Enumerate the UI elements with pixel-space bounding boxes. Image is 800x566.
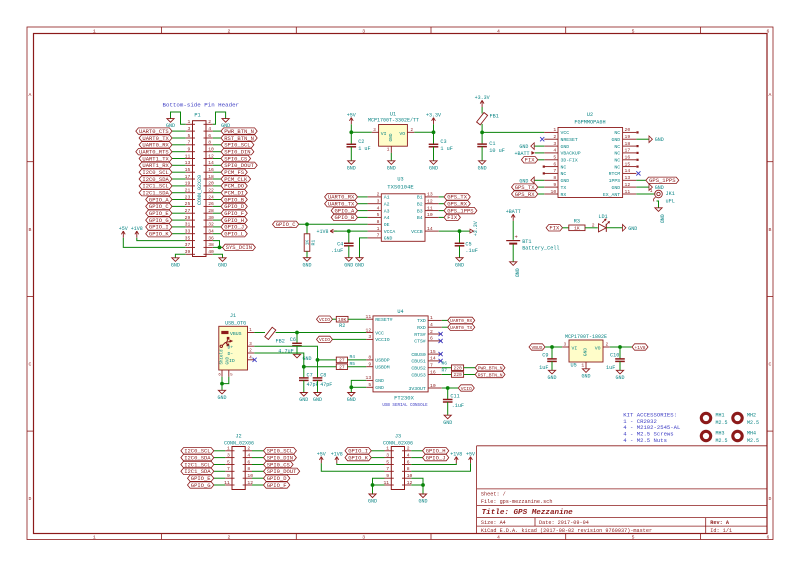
svg-text:4: 4 bbox=[208, 126, 211, 132]
svg-text:RTCM: RTCM bbox=[609, 171, 621, 177]
wire pin22 bbox=[213, 192, 221, 194]
global label SPI0_CS bbox=[221, 155, 251, 161]
svg-text:1 uF: 1 uF bbox=[440, 146, 452, 152]
wire C7 to GND bbox=[303, 380, 305, 392]
svg-text:VCCIO: VCCIO bbox=[375, 337, 390, 343]
global label PCM_CLK bbox=[221, 176, 251, 182]
mounting hole MH3 bbox=[701, 431, 727, 445]
svg-text:FGPMMOPA6H: FGPMMOPA6H bbox=[574, 119, 605, 125]
wire U2 pin12 GND bbox=[636, 186, 649, 188]
svg-text:+1V8: +1V8 bbox=[131, 226, 143, 232]
ground C5 bbox=[456, 258, 463, 262]
svg-text:C: C bbox=[29, 362, 32, 368]
power +3.3V at U3 VCCB bbox=[470, 229, 474, 233]
power +1V8 left of J3 bbox=[336, 457, 338, 464]
svg-text:CBUS1: CBUS1 bbox=[411, 359, 426, 365]
wire C6 to GND bbox=[296, 346, 298, 355]
capacitor C1 bbox=[477, 143, 487, 145]
svg-text:USB_OTG: USB_OTG bbox=[225, 320, 246, 326]
connector JK1 uFL bbox=[655, 190, 663, 198]
svg-text:5: 5 bbox=[368, 382, 371, 388]
svg-text:3: 3 bbox=[553, 141, 556, 147]
svg-text:TXD: TXD bbox=[417, 318, 426, 324]
battery BT1 Battery_Cell bbox=[506, 240, 520, 242]
global label FIX (LED) bbox=[546, 225, 562, 231]
ground P1 top-right bbox=[222, 119, 229, 123]
global label GPIO_H bbox=[423, 448, 449, 454]
title block bbox=[477, 446, 767, 534]
svg-text:GND: GND bbox=[299, 397, 308, 403]
junction SYS_DCIN bbox=[218, 246, 222, 250]
svg-text:MCP1700T-1802E: MCP1700T-1802E bbox=[565, 334, 607, 340]
global label GPS_1PPS bbox=[646, 177, 679, 183]
svg-text:JK1: JK1 bbox=[666, 191, 675, 197]
svg-text:U1: U1 bbox=[390, 111, 396, 117]
wire U2 pin9 bbox=[538, 186, 545, 188]
wire R5 to USBDM bbox=[348, 366, 367, 368]
svg-text:+3.3V: +3.3V bbox=[473, 221, 479, 236]
svg-text:2: 2 bbox=[247, 446, 250, 452]
wire C1 to GND bbox=[481, 147, 483, 161]
global label UART0_TX bbox=[139, 135, 172, 141]
svg-text:FB1: FB1 bbox=[490, 114, 499, 120]
svg-text:14: 14 bbox=[427, 226, 433, 232]
capacitor C9 bbox=[547, 358, 557, 360]
wire pin13 bbox=[172, 164, 186, 166]
power +BATT at BT1 bbox=[512, 214, 514, 221]
wire pin15 bbox=[172, 171, 186, 173]
ground C6 bbox=[293, 354, 300, 358]
wire U3 B1 bbox=[439, 196, 444, 198]
wire CBUS3 to R7 bbox=[442, 374, 452, 376]
ground U4 bbox=[348, 393, 355, 397]
svg-text:UART0_TX: UART0_TX bbox=[450, 325, 472, 331]
svg-text:2: 2 bbox=[553, 134, 556, 140]
capacitor C10 bbox=[615, 358, 625, 360]
svg-text:GND: GND bbox=[226, 356, 230, 364]
wire pin25 bbox=[172, 205, 186, 207]
svg-text:GND: GND bbox=[659, 214, 665, 223]
wire J2 pin7 bbox=[214, 470, 225, 472]
svg-text:4 - M2.5 Nuts: 4 - M2.5 Nuts bbox=[623, 437, 667, 444]
global label GPIO_K bbox=[345, 454, 371, 460]
svg-text:Shield: Shield bbox=[220, 349, 225, 365]
wire to C10 bbox=[619, 347, 621, 359]
svg-text:8: 8 bbox=[247, 466, 250, 472]
svg-text:9: 9 bbox=[386, 473, 389, 479]
wire +1V8 to J3 pin5 bbox=[337, 463, 385, 464]
svg-text:12: 12 bbox=[366, 327, 372, 333]
no-connect U2 pin14 bbox=[636, 171, 640, 175]
junction C6 bbox=[295, 331, 299, 335]
wire U2 pin19 GND bbox=[636, 138, 649, 140]
svg-text:B2: B2 bbox=[417, 202, 423, 208]
svg-text:4: 4 bbox=[247, 452, 250, 458]
svg-text:6: 6 bbox=[767, 29, 770, 35]
svg-text:+1V8: +1V8 bbox=[634, 345, 645, 351]
resistor R2 10K bbox=[336, 316, 348, 322]
svg-text:D+: D+ bbox=[228, 344, 234, 350]
wire pin11 bbox=[172, 158, 186, 160]
power GND at U2 pin19 bbox=[649, 136, 652, 143]
svg-text:GND: GND bbox=[561, 178, 570, 184]
wire R2 to RESET# bbox=[348, 318, 366, 320]
global label GPIO_C bbox=[146, 203, 172, 209]
svg-text:GPIO_F: GPIO_F bbox=[267, 482, 287, 489]
wire pin33 bbox=[172, 233, 186, 235]
svg-text:7: 7 bbox=[430, 363, 433, 369]
mounting hole MH1 bbox=[701, 413, 727, 427]
svg-text:Title: GPS Mezzanine: Title: GPS Mezzanine bbox=[482, 509, 574, 517]
wire +3.3V to FB1 bbox=[481, 107, 483, 114]
wire VBUS to U5 VI bbox=[545, 346, 562, 348]
svg-text:GPIO_L: GPIO_L bbox=[224, 231, 244, 238]
global label GPS_1PPS bbox=[444, 207, 477, 213]
wire pin7 bbox=[172, 144, 186, 146]
svg-text:11: 11 bbox=[625, 189, 631, 195]
svg-text:GPS_1PPS: GPS_1PPS bbox=[649, 177, 676, 184]
svg-text:15: 15 bbox=[430, 349, 436, 355]
svg-text:USBDP: USBDP bbox=[375, 358, 390, 364]
svg-text:A3: A3 bbox=[384, 208, 390, 214]
ground C4 bbox=[345, 258, 352, 262]
global label PCM_DO bbox=[221, 183, 247, 189]
global label SPI0_SCL bbox=[221, 142, 254, 148]
global label SPI0_DIN bbox=[264, 454, 297, 460]
svg-text:GND: GND bbox=[655, 137, 664, 143]
svg-text:CONN_02X06: CONN_02X06 bbox=[383, 441, 413, 447]
svg-text:NC: NC bbox=[614, 130, 620, 136]
svg-text:2: 2 bbox=[208, 119, 211, 125]
svg-text:GND: GND bbox=[347, 165, 356, 171]
wire pin30 bbox=[213, 219, 221, 221]
wire J2 pin5 bbox=[214, 464, 225, 466]
global label UART0_RX bbox=[448, 317, 475, 323]
svg-text:MH1: MH1 bbox=[716, 413, 725, 419]
svg-text:5: 5 bbox=[632, 535, 635, 541]
global label GPIO_B bbox=[331, 214, 357, 220]
svg-text:FB2: FB2 bbox=[276, 338, 285, 344]
svg-text:6: 6 bbox=[553, 161, 556, 167]
global label SPI0_CS bbox=[264, 461, 294, 467]
wire 3V3OUT bbox=[442, 387, 459, 389]
wire junction to C6 bbox=[296, 333, 298, 344]
svg-text:M2.5: M2.5 bbox=[716, 420, 728, 426]
no-connect J1 ID bbox=[253, 358, 257, 362]
svg-text:GPIO_K: GPIO_K bbox=[149, 231, 170, 238]
wire pin6 bbox=[213, 137, 221, 139]
svg-text:4: 4 bbox=[430, 322, 433, 328]
wire C11 to GND bbox=[447, 402, 449, 415]
svg-text:R2: R2 bbox=[339, 323, 345, 329]
wire J3 pin2 bbox=[411, 450, 422, 452]
U1 pin 3 bbox=[372, 131, 379, 133]
svg-text:1uF: 1uF bbox=[539, 365, 548, 371]
wire C2 to GND bbox=[350, 147, 352, 161]
svg-text:.1uF: .1uF bbox=[452, 403, 464, 409]
svg-text:D: D bbox=[769, 496, 772, 502]
no-connect CBUS1 bbox=[439, 359, 443, 363]
wire U3 VCCB to +3.3V bbox=[439, 230, 470, 232]
svg-text:1uF: 1uF bbox=[606, 365, 615, 371]
svg-text:B: B bbox=[29, 227, 32, 233]
svg-text:RX: RX bbox=[561, 192, 567, 198]
svg-text:1: 1 bbox=[387, 147, 390, 153]
wire pin28 bbox=[213, 212, 221, 214]
wire to C3 bbox=[433, 132, 435, 144]
U1 pin 2 bbox=[407, 131, 414, 133]
wire +5V to U1 VI bbox=[351, 124, 372, 132]
svg-text:6: 6 bbox=[430, 336, 433, 342]
wire J2 pin4 bbox=[252, 457, 264, 459]
global label SPI0_DIN bbox=[221, 149, 254, 155]
svg-text:KiCad E.D.A. kicad (2017-08-0: KiCad E.D.A. kicad (2017-08-02 revision … bbox=[481, 528, 652, 534]
power +BATT at U2 pin4 bbox=[535, 152, 544, 154]
svg-text:+5V: +5V bbox=[466, 452, 475, 458]
svg-text:47pF: 47pF bbox=[307, 382, 319, 388]
svg-text:A1: A1 bbox=[384, 195, 390, 201]
resistor R4 27 bbox=[336, 357, 347, 363]
wire C9 to GND bbox=[551, 361, 553, 370]
svg-text:220: 220 bbox=[453, 372, 462, 378]
wire U2 pin13 bbox=[636, 179, 646, 181]
svg-text:GND: GND bbox=[418, 499, 427, 505]
wire P1 pin1 to GND bbox=[171, 112, 186, 124]
wire pin9 bbox=[172, 151, 186, 153]
global label RST_BTN_N bbox=[221, 135, 257, 141]
wire pin29 bbox=[172, 219, 186, 221]
GPS module U2 FGPMMOPA6H bbox=[558, 128, 623, 198]
svg-text:GND: GND bbox=[221, 123, 230, 129]
wire pin19 bbox=[172, 185, 186, 187]
power GND at U2 pin3 bbox=[531, 143, 534, 150]
ground C9 bbox=[548, 370, 555, 374]
svg-text:C8: C8 bbox=[320, 372, 326, 378]
svg-text:27: 27 bbox=[339, 364, 345, 370]
wire J2 pin12 bbox=[252, 484, 264, 486]
svg-text:9: 9 bbox=[187, 147, 190, 153]
svg-text:1: 1 bbox=[93, 535, 96, 541]
svg-text:+5V: +5V bbox=[317, 452, 326, 458]
global label GPIO_D bbox=[221, 203, 247, 209]
svg-text:FT230X: FT230X bbox=[394, 395, 415, 402]
junction C8 bbox=[316, 358, 320, 362]
svg-text:A: A bbox=[769, 92, 772, 98]
svg-text:TXS0104E: TXS0104E bbox=[387, 183, 414, 190]
svg-text:8: 8 bbox=[553, 175, 556, 181]
global label GPIO_F bbox=[264, 482, 290, 488]
svg-text:CBUS0: CBUS0 bbox=[411, 352, 426, 358]
svg-text:GND: GND bbox=[561, 144, 570, 150]
ground C11 bbox=[444, 415, 451, 419]
svg-text:C2: C2 bbox=[358, 139, 364, 145]
svg-text:5: 5 bbox=[632, 29, 635, 35]
svg-text:+1V8: +1V8 bbox=[316, 229, 328, 235]
global label GPIO_I bbox=[345, 448, 371, 454]
global label SPI0_SCL bbox=[264, 448, 297, 454]
svg-text:NRESET: NRESET bbox=[561, 137, 578, 143]
resistor R1 1K bbox=[304, 234, 310, 252]
wire C5 to GND bbox=[459, 246, 461, 258]
svg-text:1: 1 bbox=[93, 29, 96, 35]
wire pin38 bbox=[213, 246, 223, 248]
LED LD1 bbox=[599, 224, 607, 232]
svg-text:7: 7 bbox=[386, 466, 389, 472]
svg-text:1: 1 bbox=[430, 315, 433, 321]
chip U4 FT230X bbox=[373, 316, 428, 392]
global label GPS_TX bbox=[444, 194, 470, 200]
junction C3 bbox=[432, 130, 436, 134]
capacitor C8 bbox=[313, 377, 323, 379]
global label GPS_TX bbox=[512, 184, 538, 190]
global label GPIO_I bbox=[146, 224, 172, 230]
svg-text:GND: GND bbox=[217, 395, 226, 401]
svg-text:M2.5: M2.5 bbox=[747, 420, 759, 426]
global label UART0_RX bbox=[325, 194, 358, 200]
junction C5 bbox=[458, 229, 462, 233]
svg-text:GND: GND bbox=[344, 262, 353, 268]
svg-text:GND: GND bbox=[218, 262, 227, 268]
svg-text:NC: NC bbox=[614, 164, 620, 170]
svg-text:VCIO: VCIO bbox=[319, 337, 330, 343]
svg-text:10 uF: 10 uF bbox=[489, 148, 505, 154]
wire J2 pin11 bbox=[214, 484, 225, 486]
wire pin12 bbox=[213, 158, 221, 160]
global label VCIO (R2) bbox=[317, 316, 333, 322]
svg-text:M2.5: M2.5 bbox=[716, 438, 728, 444]
wire pin24 bbox=[213, 199, 221, 201]
svg-text:J1: J1 bbox=[230, 313, 236, 319]
svg-text:RESET#: RESET# bbox=[375, 317, 392, 323]
global label GPIO_L bbox=[221, 231, 247, 237]
global label UART0_RTS bbox=[136, 149, 172, 155]
wire R4 to USBDP bbox=[348, 359, 367, 361]
wire pin17 bbox=[172, 178, 186, 180]
wire pin26 bbox=[213, 205, 221, 207]
wire pin21 bbox=[172, 192, 186, 194]
U5 pin 1 GND bbox=[585, 362, 587, 369]
svg-text:VCC: VCC bbox=[375, 330, 384, 336]
svg-text:18: 18 bbox=[625, 141, 631, 147]
svg-text:P1: P1 bbox=[194, 113, 200, 119]
capacitor C6 bbox=[292, 342, 302, 344]
junction C1 bbox=[480, 131, 484, 135]
svg-text:GND: GND bbox=[384, 236, 393, 242]
wire GPIO_C to OE bbox=[299, 223, 368, 225]
no-connect CBUS0 bbox=[439, 352, 443, 356]
regulator U1 MCP1700T-3302E/TT bbox=[379, 125, 408, 147]
wire +5V to pin37 bbox=[123, 238, 185, 248]
wire U3 A4 bbox=[358, 216, 368, 218]
power GND at U2 pin12 bbox=[649, 184, 652, 191]
global label VBUS bbox=[529, 344, 545, 350]
wire to C9 bbox=[551, 347, 553, 359]
power +5V left of J3 bbox=[320, 457, 322, 464]
svg-text:uFL: uFL bbox=[666, 199, 675, 205]
wire U3 A1 bbox=[358, 196, 368, 198]
svg-text:VBUS: VBUS bbox=[531, 345, 542, 351]
wire pin16 bbox=[213, 171, 221, 173]
global label SPI0_DOUT bbox=[221, 162, 257, 168]
U5 pin 3 bbox=[562, 346, 569, 348]
svg-text:C5: C5 bbox=[465, 241, 471, 247]
svg-text:9: 9 bbox=[553, 182, 556, 188]
svg-text:NC: NC bbox=[614, 151, 620, 157]
wire C8 to GND bbox=[317, 380, 319, 392]
wire to C1 bbox=[481, 132, 483, 144]
ground U1 bbox=[388, 161, 395, 165]
svg-text:VCCB: VCCB bbox=[411, 229, 423, 235]
wire +BATT to BT1 bbox=[512, 221, 514, 240]
wire J3 pin10/12 to GND bbox=[411, 478, 423, 485]
wire FB1 to U2 VCC bbox=[482, 124, 544, 132]
junction C2 bbox=[349, 130, 353, 134]
svg-text:+3.3V: +3.3V bbox=[426, 112, 441, 118]
svg-text:6: 6 bbox=[208, 133, 211, 139]
svg-text:FIX: FIX bbox=[525, 157, 536, 164]
svg-text:1: 1 bbox=[650, 188, 653, 194]
wire pin23 bbox=[172, 199, 186, 201]
svg-text:GPS_RX: GPS_RX bbox=[515, 191, 536, 198]
ground C7 bbox=[300, 393, 307, 397]
power +1V8 right of J3 bbox=[455, 457, 457, 464]
svg-text:RXD: RXD bbox=[417, 325, 426, 331]
wire C4 to GND bbox=[348, 246, 350, 258]
svg-text:Rev: A: Rev: A bbox=[710, 520, 730, 526]
P1 pins bbox=[186, 124, 213, 254]
global label UART1_RX bbox=[139, 162, 172, 168]
wire U2 pin5 FIX bbox=[538, 159, 545, 161]
svg-text:1PPS: 1PPS bbox=[609, 178, 621, 184]
svg-text:+BATT: +BATT bbox=[506, 209, 521, 215]
wire pin31 bbox=[172, 226, 186, 228]
svg-text:1K: 1K bbox=[305, 240, 311, 246]
global label VCIO (3V3OUT) bbox=[458, 385, 474, 391]
junction C11 bbox=[446, 386, 450, 390]
U5 pin 2 bbox=[603, 346, 610, 348]
svg-text:GND: GND bbox=[443, 420, 452, 426]
svg-text:GND: GND bbox=[375, 385, 384, 391]
svg-text:Id: 1/1: Id: 1/1 bbox=[710, 528, 732, 534]
ground C1 bbox=[479, 161, 486, 165]
svg-text:5: 5 bbox=[227, 459, 230, 465]
svg-text:C3: C3 bbox=[440, 139, 446, 145]
power GND at LD1 bbox=[623, 225, 626, 232]
wire pin39 to GND bbox=[175, 254, 185, 257]
svg-text:GND: GND bbox=[478, 165, 487, 171]
svg-text:GND: GND bbox=[547, 375, 556, 381]
svg-text:15: 15 bbox=[625, 161, 631, 167]
wire VBUS to FB2 bbox=[254, 332, 265, 334]
ground U3 bbox=[356, 258, 363, 262]
svg-text:RTS#: RTS# bbox=[414, 332, 426, 338]
wire P1 pin2 to GND bbox=[213, 112, 226, 124]
svg-text:1K: 1K bbox=[574, 226, 580, 232]
resistor R7 220 bbox=[452, 372, 464, 378]
svg-text:.1uF: .1uF bbox=[465, 248, 477, 254]
svg-text:GND: GND bbox=[583, 348, 589, 357]
J1 bottom pins bbox=[221, 370, 223, 377]
svg-text:220: 220 bbox=[453, 365, 462, 371]
global label GPIO_B bbox=[221, 196, 247, 202]
svg-text:16: 16 bbox=[430, 369, 436, 375]
svg-text:C4: C4 bbox=[337, 241, 343, 247]
global label GPIO_J bbox=[221, 224, 247, 230]
svg-text:J2: J2 bbox=[235, 434, 241, 440]
wire R7 bbox=[464, 374, 476, 376]
svg-text:D-: D- bbox=[228, 351, 234, 357]
wire pin40 to GND bbox=[213, 254, 223, 257]
